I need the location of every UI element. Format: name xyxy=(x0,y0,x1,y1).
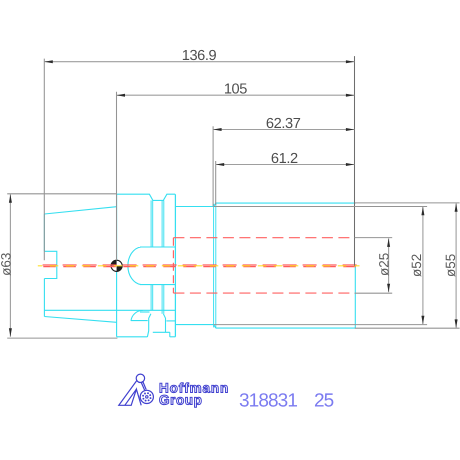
arrow d55 bottom xyxy=(455,319,458,328)
bore d25 top xyxy=(173,237,354,239)
step face line xyxy=(213,204,215,328)
dim line d63 xyxy=(9,194,11,336)
ball quadrant top-left xyxy=(111,260,117,266)
groove edge vertical lower 3 xyxy=(161,285,163,314)
arrow d63 top xyxy=(9,194,12,203)
groove edge vertical upper 4 xyxy=(163,200,165,247)
ext line 62.37 xyxy=(212,126,214,206)
arrow d52 bottom xyxy=(421,316,424,325)
ext line flange face xyxy=(116,92,118,260)
svg-text:Group: Group xyxy=(159,392,203,407)
slot outer right edge xyxy=(169,332,171,337)
body d52 top xyxy=(175,206,213,208)
ext line d63 top xyxy=(7,193,116,195)
flange top with gripper groove xyxy=(117,194,176,200)
ext line d25 bottom xyxy=(355,292,393,294)
flange right face xyxy=(174,194,176,337)
centerline yellow xyxy=(38,265,360,267)
slot right wall xyxy=(163,314,165,333)
coolant slot capsule xyxy=(128,247,176,285)
centerline red lower xyxy=(43,266,359,268)
taper bottom edge xyxy=(44,317,116,323)
ext line d55 top xyxy=(355,202,460,204)
ext line 61.2 xyxy=(215,161,217,205)
shank end recess xyxy=(44,251,56,278)
logo head xyxy=(136,374,144,382)
logo gear outer xyxy=(140,390,153,403)
taper top edge xyxy=(44,207,116,214)
ext line right face xyxy=(354,56,356,266)
groove arc bottom xyxy=(131,310,143,320)
arrow 61.2 right xyxy=(346,163,355,166)
dim line 105 xyxy=(117,94,355,96)
arrow 136.9 left xyxy=(44,60,53,63)
ball outline xyxy=(111,260,122,271)
dim line d52 xyxy=(422,207,424,324)
shank left face lower xyxy=(43,279,45,317)
logo gear hub xyxy=(146,396,148,398)
svg-text:318831: 318831 xyxy=(239,391,297,412)
svg-text:25: 25 xyxy=(314,391,334,412)
dim line 136.9 xyxy=(44,61,354,63)
flange bottom right xyxy=(170,336,176,338)
step face second line xyxy=(215,203,217,328)
svg-text:ø52: ø52 xyxy=(409,254,424,277)
groove edge vertical lower 2 xyxy=(152,285,154,311)
arrow 105 right xyxy=(346,94,355,97)
bore d25 bottom xyxy=(173,292,354,294)
ext line shank end xyxy=(43,59,45,261)
logo gear tooth 1 xyxy=(150,397,152,399)
arrow d25 bottom xyxy=(387,284,390,293)
centerline red upper xyxy=(43,264,359,266)
svg-text:136.9: 136.9 xyxy=(182,48,217,64)
dim line d25 xyxy=(388,238,390,292)
drive slot line short xyxy=(140,311,150,313)
dim line d55 xyxy=(455,203,457,328)
svg-text:62.37: 62.37 xyxy=(266,116,301,132)
svg-text:61.2: 61.2 xyxy=(271,151,298,167)
groove edge vertical upper 1 xyxy=(150,200,152,247)
arrow 62.37 left xyxy=(213,128,222,131)
svg-text:ø63: ø63 xyxy=(0,253,14,276)
arrow 136.9 right xyxy=(346,60,355,63)
nose d55 bottom xyxy=(216,327,356,329)
arrow 105 left xyxy=(117,94,126,97)
flange left face xyxy=(116,194,118,337)
groove bottom line left xyxy=(131,320,148,322)
groove edge vertical lower 1 xyxy=(150,285,152,311)
dim line 61.2 xyxy=(216,164,355,166)
drive slot line xyxy=(44,309,175,311)
step chamfer bottom diagonal xyxy=(214,325,216,329)
arrow d63 bottom xyxy=(9,328,12,337)
ext line d52 top xyxy=(214,206,428,208)
bore end face xyxy=(172,238,174,293)
svg-text:ø55: ø55 xyxy=(443,254,458,277)
ext line d63 bottom xyxy=(7,337,117,339)
step chamfer top diagonal xyxy=(214,203,216,207)
svg-text:105: 105 xyxy=(224,82,247,98)
shank left face upper xyxy=(43,214,45,251)
groove edge vertical upper 2 xyxy=(152,200,154,247)
flange bottom left xyxy=(117,336,148,338)
nose d55 top xyxy=(216,202,356,204)
slot bottom xyxy=(153,331,170,333)
ext line d52 bottom xyxy=(214,324,428,326)
arrow d55 top xyxy=(455,203,458,212)
arrow d52 top xyxy=(421,207,424,216)
body d52 bottom xyxy=(175,324,213,326)
logo body triangle xyxy=(119,381,141,406)
ext line d55 bottom xyxy=(355,327,460,329)
slot left wall xyxy=(147,314,151,337)
right end face xyxy=(354,266,356,328)
groove bottom line right xyxy=(166,320,175,322)
dim line 62.37 xyxy=(213,129,354,131)
ball quadrant bottom-right xyxy=(117,266,123,272)
groove edge vertical upper 3 xyxy=(161,200,163,247)
groove edge vertical lower 4 xyxy=(163,285,165,314)
arrow 61.2 left xyxy=(216,163,225,166)
arrow d25 top xyxy=(387,238,390,247)
svg-text:ø25: ø25 xyxy=(377,253,392,276)
logo arm xyxy=(141,381,146,390)
arrow 62.37 right xyxy=(346,128,355,131)
logo inner slope xyxy=(125,389,137,405)
ext line d25 top xyxy=(355,237,393,239)
